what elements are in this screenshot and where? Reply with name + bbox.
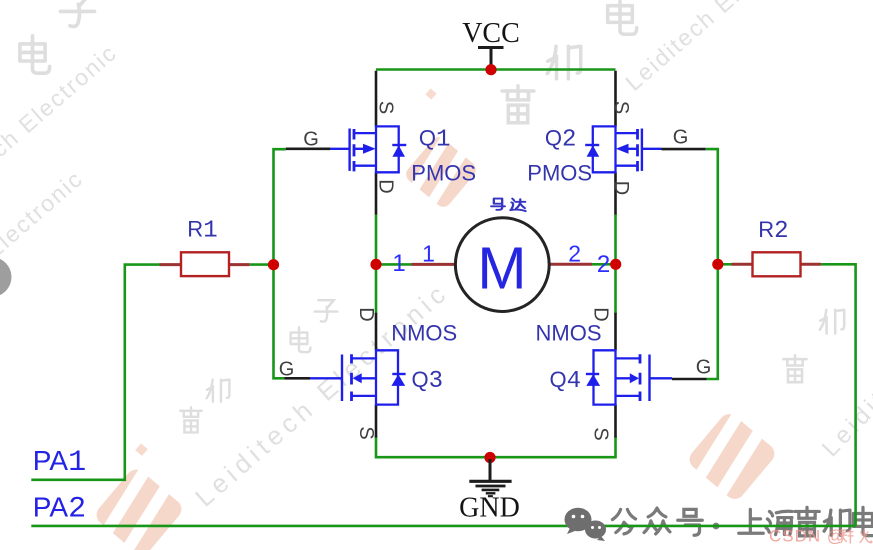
svg-text:G: G	[279, 359, 295, 381]
node 2	[568, 241, 621, 279]
svg-text:S: S	[375, 101, 397, 114]
wire PA1 to R1	[31, 265, 159, 480]
wire motor pin 2 to node 2	[592, 263, 616, 266]
resistor R2	[732, 217, 821, 276]
svg-text:D: D	[355, 307, 377, 321]
wire right gate bus to R2	[718, 263, 732, 266]
power VCC	[462, 18, 520, 67]
wire right branch (Q2 drain to node 2)	[614, 214, 617, 314]
svg-text:PA1: PA1	[33, 445, 86, 480]
transistor Q1 PMOS	[286, 71, 476, 215]
svg-text:R1: R1	[187, 217, 217, 245]
wire right branch (Q4 source to GND rail)	[614, 436, 617, 459]
footer wechat icon	[565, 508, 607, 541]
svg-text:D: D	[375, 179, 397, 193]
svg-text:GND: GND	[459, 493, 520, 524]
svg-text:PMOS: PMOS	[527, 161, 592, 186]
node 1	[370, 241, 434, 278]
svg-text:G: G	[673, 127, 689, 149]
footer CSDN watermark	[769, 527, 873, 546]
wire VCC top rail	[376, 68, 616, 71]
transistor Q3 NMOS	[279, 307, 457, 439]
wire GND bottom rail	[376, 456, 616, 459]
resistor R1	[160, 217, 250, 277]
svg-text:S: S	[355, 426, 377, 439]
ground GND	[459, 459, 520, 524]
svg-text:2: 2	[597, 251, 610, 278]
svg-text:Q4: Q4	[550, 367, 582, 395]
svg-text:S: S	[610, 101, 632, 114]
transistor Q4 NMOS	[536, 307, 712, 440]
wire right gate bus	[706, 149, 718, 379]
svg-text:G: G	[303, 129, 319, 151]
svg-text:Q1: Q1	[419, 126, 451, 154]
svg-text:1: 1	[422, 241, 435, 267]
wire R1 to left gate bus	[250, 263, 274, 266]
svg-text:Q3: Q3	[412, 367, 444, 395]
wire R2 to PA2 riser	[821, 264, 856, 526]
svg-text:D: D	[610, 181, 632, 195]
motor M1	[412, 199, 593, 312]
wire left branch (Q1 drain to node 1)	[375, 214, 378, 314]
svg-text:2: 2	[568, 241, 581, 267]
svg-text:NMOS: NMOS	[391, 321, 457, 346]
svg-text:PMOS: PMOS	[411, 161, 476, 186]
svg-text:1: 1	[392, 250, 405, 277]
wire left gate bus	[274, 149, 286, 378]
svg-text:NMOS: NMOS	[536, 321, 602, 346]
sidebar handle	[0, 257, 12, 297]
svg-text:Q2: Q2	[545, 126, 577, 154]
svg-text:R2: R2	[758, 217, 788, 245]
svg-text:PA2: PA2	[33, 491, 86, 526]
svg-text:CSDN @: CSDN @	[769, 527, 845, 546]
wire left branch (Q3 source to GND rail)	[375, 436, 378, 459]
svg-text:VCC: VCC	[462, 18, 520, 49]
svg-text:S: S	[590, 427, 612, 440]
svg-text:G: G	[696, 357, 712, 379]
node R1 junction	[268, 259, 279, 270]
node GND junction	[484, 452, 495, 463]
node VCC junction	[485, 64, 496, 75]
wire node 1 to motor pin 1	[376, 263, 412, 266]
node R2 junction	[712, 259, 723, 270]
svg-text:M: M	[477, 236, 526, 302]
wire PA2	[31, 525, 855, 528]
transistor Q2 PMOS	[527, 71, 706, 215]
